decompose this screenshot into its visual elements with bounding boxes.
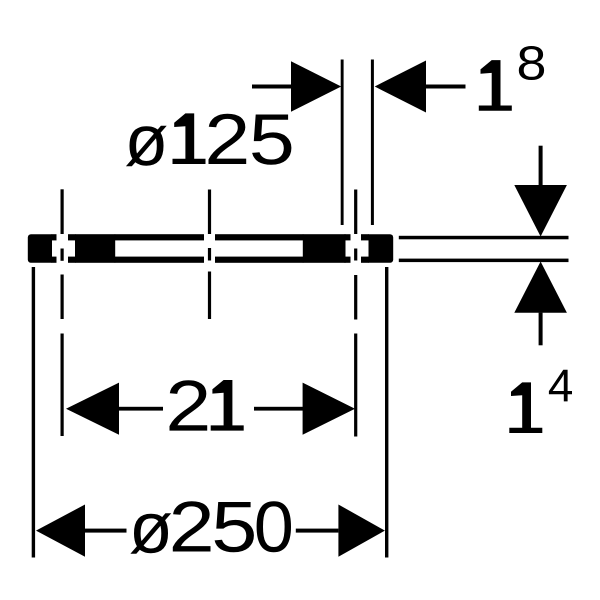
extension line: o125 left wall [341,60,344,226]
label: 1.8 digit 1 (custom footed glyph) [479,60,512,111]
extension line: o250 right [385,267,388,558]
label: o125 digit 2 [209,114,247,164]
extension line: left bolt axis (dim 21) [61,334,64,437]
dimension line: 21 right stub [254,407,305,411]
centre line: disc axis dashes [208,190,211,235]
dimension arrow: 1.4 pointing up [514,262,567,313]
label: 1.4 digit 1 (custom footed glyph) [509,382,542,433]
label: o250 digit 2 [173,501,211,551]
label: o250 digit 5 [215,502,254,552]
label: o125 digit 1 (custom footed glyph) [173,113,206,164]
extension line: right bolt axis (dim 21) [354,334,357,437]
label: 1.8 superscript 8 [519,46,544,80]
centre line: left bolt axis dashes [61,189,64,234]
section: web top bar right segment [215,234,303,240]
section: web top bar left segment [115,234,204,240]
section: right hub top lip [345,234,351,240]
label: o250 digit 0 [257,501,291,552]
extension line: o125 right wall [371,60,374,226]
centre line: right bolt axis dashes [354,190,357,235]
section: web bottom bar left segment [115,257,204,263]
dimension arrow: 1.4 pointing down [514,185,567,237]
section: right hole top lip [361,234,369,240]
label: o125 digit 5 [252,115,291,165]
label: 1.4 superscript 4 [549,370,572,402]
section: left hub solid block [75,234,115,263]
section: right hole bottom lip [361,257,369,263]
label: o125 diameter sign [126,126,167,167]
section: web bottom bar right segment [215,257,303,263]
dimension arrow: 1.8 pointing left [375,61,426,113]
section: left hole top lip [52,234,57,240]
thickness line: top surface extended [399,236,569,240]
section: right hub solid block [303,234,346,263]
dimension arrow: 21 pointing right [303,383,355,435]
section: left rim block [28,234,52,263]
label: 21 digit 1 (custom footed glyph) [211,380,244,431]
section: right rim block [369,234,394,263]
dimension line: o250 left stub [85,529,127,533]
section: left hole bottom lip [52,257,57,263]
dimension arrow: o125 pointing right [291,61,341,111]
dimension stem: 1.4 upper [539,146,543,185]
dimension arrow: o250 pointing right [338,505,385,557]
thickness line: bottom surface extended [399,259,569,263]
dimension line: o125 leader left stub [252,85,292,89]
section: left hub top lip [68,234,76,240]
section: right hub bottom lip [345,257,351,263]
dimension line: o250 right stub [296,529,339,533]
dimension line: 1.8 right stub [426,85,466,89]
dimension arrow: 21 pointing left [66,383,119,435]
label: o250 diameter sign [130,513,171,554]
section: left hub bottom lip [68,257,76,263]
extension line: o250 left [32,267,35,558]
dimension arrow: o250 pointing left [36,505,85,557]
dimension line: 21 left stub [119,407,163,411]
label: 21 digit 2 [170,380,208,430]
dimension stem: 1.4 lower [539,313,543,346]
